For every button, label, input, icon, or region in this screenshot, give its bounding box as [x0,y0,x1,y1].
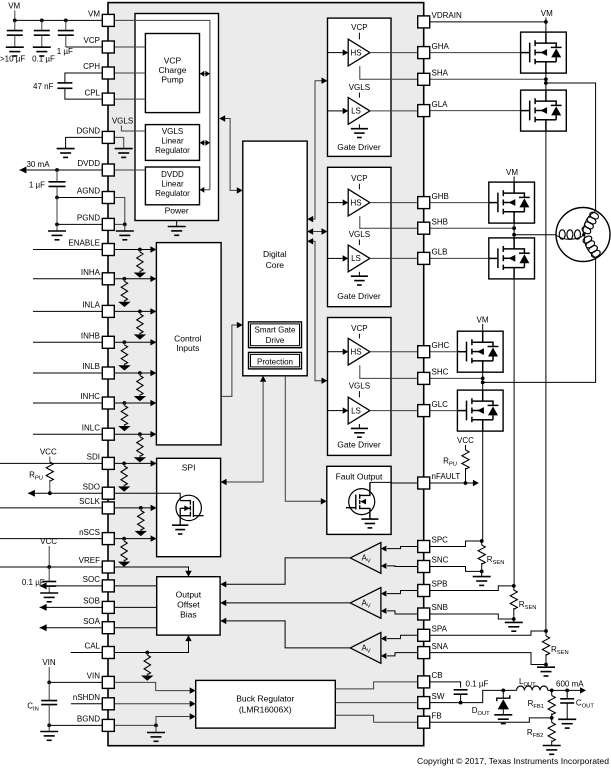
svg-text:GLA: GLA [432,100,449,109]
svg-text:GLB: GLB [432,248,448,257]
wire SHB [430,227,514,229]
svg-text:SPA: SPA [432,625,448,634]
pin VREF [102,561,114,573]
pin ENABLE [102,244,114,256]
svg-text:INLA: INLA [82,301,100,310]
op-amp HS driver C [348,338,370,365]
pin VM [102,14,114,26]
wire ENABLE input [33,249,151,251]
svg-text:Gate Driver: Gate Driver [337,291,381,301]
svg-text:Gate Driver: Gate Driver [337,142,381,152]
svg-text:600 mA: 600 mA [556,680,584,689]
svg-text:VREF: VREF [79,556,100,565]
resistor nSCS pulldown [122,537,126,541]
pin CAL [102,647,114,659]
transistor QC2 low-side (NMOS with body diode) [457,390,503,431]
wire GHA to QA1 gate [430,52,521,54]
svg-text:VM: VM [541,9,553,18]
svg-text:INHA: INHA [81,268,101,277]
wire CPH to charge pump [114,72,145,74]
wire VM to QB1 drain [513,177,515,183]
pin CPL [102,93,114,105]
arrow ENABLE into Control Inputs [150,246,156,252]
block VGLS Linear Regulator [145,125,199,161]
resistor INLA pulldown [138,310,142,314]
svg-text:Drive: Drive [266,336,285,345]
svg-text:ENABLE: ENABLE [68,239,100,248]
arrow nFAULT direction [473,480,479,486]
resistor RPU (SDO) [46,462,53,481]
block Gate Driver A [328,18,392,156]
block Gate Driver C [328,318,392,456]
wire SPC to RSEN C [430,541,482,547]
pin BGND [102,719,114,731]
svg-text:INLB: INLB [82,362,100,371]
wire phase B to motor [514,234,556,236]
svg-text:30 mA: 30 mA [26,160,50,169]
svg-text:VCP: VCP [351,324,367,333]
resistor RPU (nFAULT) [462,450,469,469]
ground LS driver B [358,272,360,276]
wire phase B source column to RSEN B [513,279,515,586]
svg-text:SNB: SNB [432,603,448,612]
pin CB [418,676,430,688]
wire SW node [430,690,517,702]
ground PGND internal [124,224,126,231]
svg-text:VCP: VCP [164,56,182,66]
svg-text:Copyright © 2017, Texas Instru: Copyright © 2017, Texas Instruments Inco… [417,756,609,766]
svg-text:nSHDN: nSHDN [73,693,100,702]
pin INHA [102,273,114,285]
wire amplifier A output to Output Offset Bias [226,621,350,648]
junction SHB [512,226,516,230]
wire nSCS input [0,538,151,540]
wire SNB to RSEN B bottom [430,614,514,619]
wire HS B input [328,202,343,204]
pin PGND [102,218,114,230]
svg-text:VIN: VIN [87,672,101,681]
pin INHB [102,336,114,348]
junction SW / bootstrap cap [459,701,463,705]
block Protection [249,352,302,369]
block Output Offset Bias [157,577,220,635]
pin GLB [418,252,430,264]
svg-text:47 nF: 47 nF [33,82,54,91]
pin INLB [102,367,114,379]
junction RSEN C bottom [480,570,484,574]
junction VREF / C6 [47,565,51,569]
svg-text:VCC: VCC [40,448,57,457]
svg-text:RPU: RPU [443,457,457,468]
wire phase C to motor [483,258,596,382]
svg-text:VM: VM [8,2,20,11]
block SPI [157,458,221,556]
svg-text:Bias: Bias [180,610,197,620]
wire SPC to amplifier [387,547,418,549]
ground AGND/PGND external [56,224,58,231]
junction PGND internal [123,223,127,227]
op-amp LS driver A [348,98,370,125]
wire SDI input [0,462,151,464]
ground CIN/BGND [48,725,50,731]
wire phase A to motor [546,83,596,211]
wire SNA to RSEN A bottom [430,653,546,665]
wire SPA to amplifier [387,635,418,638]
pin SW [418,697,430,709]
op-amp LS driver B [348,245,370,272]
transistor QB2 low-side (NMOS with body diode) [489,238,535,279]
wire CPL to charge pump [114,98,145,100]
wire VM to QC1 drain [482,324,484,331]
ground DGND external [57,149,75,158]
block Smart Gate Drive [249,322,302,348]
svg-text:Gate Driver: Gate Driver [337,440,381,450]
wire amplifier C output to Output Offset Bias [226,558,350,584]
pin CPH [102,67,114,79]
block Buck Regulator LMR16006X [196,680,336,728]
wire LS A output to GLA [370,110,418,112]
pin GHB [418,197,430,209]
arrow INHB into Control Inputs [150,339,156,345]
svg-text:RSEN: RSEN [551,645,569,656]
ground Fault NMOS [361,519,378,528]
arrow nSCS into SPI [151,535,157,541]
svg-text:0.1 µF: 0.1 µF [32,55,55,64]
transistor SPI SDO open-drain NMOS [176,495,201,520]
transistor QB1 high-side (NMOS with body diode) [489,182,535,223]
svg-text:SPB: SPB [432,580,448,589]
pin VCP [102,41,114,53]
svg-text:Inputs: Inputs [176,343,199,353]
junction RSEN B top [512,584,516,588]
wire gate-drive bus C (core to Gate Driver C) [313,241,321,380]
wire SDO output [28,492,157,494]
wire FB to divider [430,718,552,722]
junction phase B motor line [512,233,516,237]
svg-text:VM: VM [477,316,489,325]
arrow INLA into Control Inputs [150,308,156,314]
svg-text:nFAULT: nFAULT [432,472,461,481]
svg-text:Control: Control [174,333,202,343]
wire VCP pin to charge pump [114,46,145,48]
wire LS A input [328,110,343,112]
arrow CAL into Output Offset Bias [185,635,191,641]
wire GHB to QB1 gate [430,202,489,204]
svg-text:RSEN: RSEN [487,555,505,566]
wire nSHDN input [71,703,103,705]
junction RSEN A top [544,629,548,633]
wire SOB output [40,606,157,608]
wire VIN pin to buck regulator [114,682,190,690]
svg-text:VGLS: VGLS [349,83,370,92]
wire INLA input [33,310,151,312]
svg-text:CAL: CAL [84,642,100,651]
wire AGND to PGND external [56,198,58,225]
motor (3-phase BLDC) [556,208,610,262]
resistor RFB2 [551,718,553,723]
capacitor COUT [566,690,568,698]
block VCP Charge Pump [145,34,199,113]
wire VREF [0,567,189,571]
wire SOC output [40,585,157,587]
junction BGND / CIN [47,724,51,728]
wire VDRAIN to VM [430,21,546,23]
transistor QA1 high-side (NMOS with body diode) [521,32,567,73]
wire VCP pin to C3 [66,46,103,48]
wire DVDD pin to DVDD regulator [114,169,145,171]
diode DOUT (catch schottky) [502,690,504,698]
svg-text:VGLS: VGLS [349,382,370,391]
resistor SDI pulldown [122,462,126,466]
svg-text:CPH: CPH [83,62,100,71]
svg-text:0.1 µF: 0.1 µF [466,680,489,689]
resistor ENABLE pulldown [138,248,142,252]
resistor INHA pulldown [123,277,127,281]
wire LS B output to GLB [370,257,418,259]
junction phase A motor line [544,81,548,85]
wire PGND [57,223,102,225]
wire DVDD output [19,169,102,171]
wire AGND internal [114,198,125,225]
wire GLB to QB2 gate [430,257,489,259]
motor winding star point [582,233,585,236]
svg-text:VCP: VCP [351,174,367,183]
svg-text:Offset: Offset [177,600,200,610]
arrow SDI into SPI [151,460,157,466]
svg-text:LS: LS [351,107,361,116]
ground SPI NMOS [172,525,188,534]
wire INLB input [33,372,151,374]
pin SOA [102,622,114,634]
pin GLC [418,405,430,417]
wire SNA to amplifier [387,653,418,656]
svg-text:SW: SW [432,692,445,701]
svg-text:HS: HS [350,48,361,57]
wire SPI to Digital Core (bidirectional) [226,381,263,482]
transistor Fault Output open-drain NMOS [349,489,375,515]
svg-text:SDI: SDI [87,453,100,462]
wire SPB to amplifier [387,591,418,594]
ground RSEN A [545,665,547,668]
wire CAL input [71,641,189,653]
junction VM rail / C2 [40,19,44,23]
arrow SOA direction [40,624,47,631]
wire phase C source column to RSEN C [482,431,484,541]
wire AGND [57,197,102,199]
pin VDRAIN [418,16,430,28]
svg-text:SOA: SOA [83,617,101,626]
svg-text:LS: LS [351,406,361,415]
svg-text:Output: Output [176,590,202,600]
wire LS B input [328,257,343,259]
wire Fault NMOS drain to nFAULT [370,481,391,483]
pin nSHDN [102,698,114,710]
wire SNC to amplifier [387,565,418,568]
junction AGND / C5 [55,196,59,200]
arrow VM bus to DVDD regulator [200,189,210,191]
svg-text:VGLS: VGLS [162,127,183,136]
resistor RFB1 [551,690,553,695]
junction RSEN C top [480,539,484,543]
resistor INLB pulldown [138,371,142,375]
svg-text:HS: HS [350,198,361,207]
wire phase B switch node column [513,223,515,238]
wire GLA to QA2 gate [430,110,521,112]
wire INHC input [33,402,151,404]
wire LS C input [328,410,343,412]
svg-text:HS: HS [350,348,361,357]
junction PGND [55,223,59,227]
pin SDI [102,457,114,469]
svg-text:CIN: CIN [27,702,39,713]
wire SHB return to HS driver [360,216,418,228]
wire INHB input [33,341,151,343]
ground RSEN B [513,619,515,622]
arrow DVDD output direction [19,167,26,174]
wire phase C switch node column [482,372,484,390]
svg-text:SPI: SPI [182,462,196,472]
motor winding phase A (upper-right coil) [580,210,600,236]
wire buck output node [548,689,581,691]
capacitor bootstrap 0.1 uF [454,690,468,694]
pin FB [418,716,430,728]
wire SOA output [40,627,157,629]
wire gate-drive bus B (core to Gate Driver B, bidirectional) [313,231,321,233]
junction DVDD / C5 [55,168,59,172]
svg-text:DVDD: DVDD [77,159,100,168]
wire SHA return to HS driver [360,66,418,79]
svg-text:DGND: DGND [76,127,100,136]
wire phase A drain column [545,22,547,32]
pin GHC [418,346,430,358]
arrow VREF into Output Offset Bias [185,571,191,577]
pin DVDD [102,164,114,176]
motor winding phase B (left coil) [557,230,583,240]
wire HS A input [328,52,343,54]
ground RFB2 [543,746,561,755]
arrow SDO direction [28,490,35,497]
svg-text:INHC: INHC [80,392,100,401]
svg-text:Core: Core [266,260,285,270]
block Digital Core [243,141,307,376]
ground C1 [6,47,24,56]
wire SCLK input [0,507,151,509]
capacitor CIN [48,682,50,700]
capacitor C3 1 uF (VM to VCP) [65,20,67,30]
pin SPC [418,541,430,553]
ground DOUT [494,715,512,724]
svg-text:Fault Output: Fault Output [336,471,383,481]
wire SNB to amplifier [387,611,418,614]
wire SPB to RSEN B [430,586,514,591]
motor winding phase C (lower-right coil) [581,234,602,260]
svg-text:GHC: GHC [432,341,450,350]
svg-text:PGND: PGND [77,214,100,223]
junction output / RFB1 [550,689,554,693]
pin SHC [418,372,430,384]
svg-text:RSEN: RSEN [519,600,537,611]
capacitor C6 0.1 uF (VREF) [48,567,50,582]
svg-text:VDRAIN: VDRAIN [432,11,462,20]
op-amp HS driver B [348,189,370,216]
block Control Inputs [156,243,221,445]
svg-text:LS: LS [351,254,361,263]
svg-text:VCP: VCP [351,23,367,32]
pin nFAULT [418,477,430,489]
pin INLC [102,428,114,440]
ground COUT [558,719,576,728]
svg-text:CB: CB [432,671,443,680]
capacitor C1 >10 uF bulk [14,20,16,30]
arrow VM bus to VCP charge pump (bidirectional) [200,73,210,75]
pin AGND [102,192,114,204]
svg-text:DOUT: DOUT [472,706,490,717]
wire CB to bootstrap cap [430,682,461,688]
svg-text:RFB2: RFB2 [527,728,543,739]
resistor CAL pulldown [145,651,149,655]
svg-text:GHA: GHA [432,42,450,51]
ground Power block [176,221,178,227]
capacitor C2 0.1 uF [41,20,43,30]
pin SOC [102,580,114,592]
block Power (supply group) [135,14,219,221]
svg-text:Buck Regulator: Buck Regulator [236,693,294,703]
svg-text:>10 µF: >10 µF [0,55,25,64]
wire HS A output to GHA [370,52,418,54]
arrow buck output 600 mA [580,687,586,693]
ground C2 [33,47,51,56]
wire VM pin to charge-pump supply bus [114,20,210,189]
pin SNB [418,608,430,620]
junction output / COUT [565,689,569,693]
block Gate Driver B [328,167,392,306]
svg-text:Regulator: Regulator [155,189,190,198]
resistor RSEN B [513,586,515,590]
block Fault Output [327,466,391,534]
pin SPA [418,629,430,641]
junction FB / RFB1 / RFB2 [550,716,554,720]
svg-text:(LMR16006X): (LMR16006X) [239,704,292,714]
pin INLA [102,305,114,317]
junction nFAULT / RPU [464,481,468,485]
resistor INHC pulldown [123,401,127,405]
junction SHA [544,77,548,81]
wire buck CB output [335,682,417,689]
arrow INLC into Control Inputs [150,431,156,437]
pin SHB [418,222,430,234]
pin SPB [418,585,430,597]
wire GHC to QC1 gate [430,351,458,353]
wire SHC return to HS driver [360,365,418,378]
wire Control Inputs to Digital Core [221,325,237,396]
resistor INHB pulldown [123,340,127,344]
junction RSEN B bottom [512,617,516,621]
pin SNC [418,561,430,573]
svg-text:DVDD: DVDD [161,170,184,179]
junction phase C motor line [481,381,485,385]
wire INLC input [33,433,151,435]
resistor RSEN C [481,541,483,545]
svg-text:RFB1: RFB1 [528,699,544,710]
pin SHA [418,73,430,85]
svg-text:COUT: COUT [576,699,594,710]
svg-text:Charge: Charge [159,65,187,75]
resistor RSEN A [545,631,547,636]
svg-text:VGLS: VGLS [349,230,370,239]
wire INHA input [33,278,151,280]
ground C6 [40,593,58,602]
ground LS driver A [358,124,360,128]
